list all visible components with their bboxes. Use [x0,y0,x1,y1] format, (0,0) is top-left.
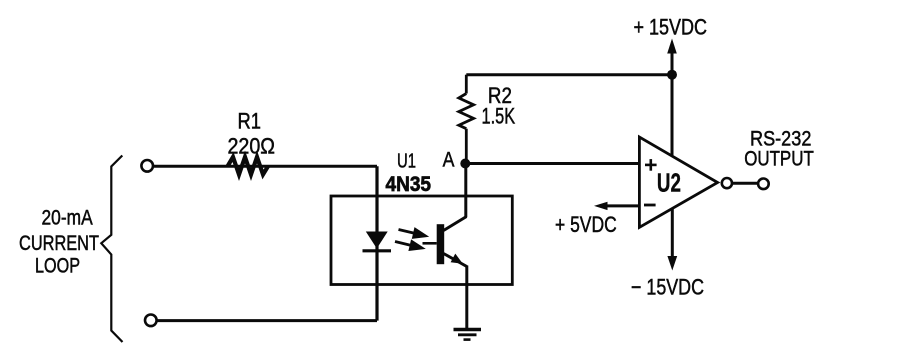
svg-text:LOOP: LOOP [35,255,80,278]
brace 20-mA current loop [101,156,122,343]
svg-text:1.5K: 1.5K [482,104,516,129]
+5VDC reference arrow [555,202,639,237]
+15VDC supply arrow [634,14,708,74]
ground [454,330,482,340]
-15VDC supply arrow [631,209,704,300]
resistor R1 [228,157,269,175]
label U1 4N35 [386,151,432,197]
optocoupler U1 box [331,196,512,285]
svg-text:+ 15VDC: + 15VDC [634,14,708,39]
LED diode [363,232,392,251]
wire output [733,182,758,185]
svg-text:R1: R1 [238,109,262,134]
svg-text:A: A [443,149,455,172]
wire emitter to ground [465,266,468,330]
svg-text:OUTPUT: OUTPUT [744,148,814,171]
label R1 220ohm [228,109,276,159]
wire bottom loop to LED cathode [158,319,378,322]
svg-text:220Ω: 220Ω [228,134,276,159]
svg-text:20-mA: 20-mA [42,207,93,230]
svg-text:4N35: 4N35 [386,173,432,196]
label RS-232 OUTPUT [744,128,814,171]
op-amp U2 [639,137,717,227]
terminal bottom-left [145,315,157,327]
resistor R2 [459,75,474,164]
terminal top-left [141,160,153,172]
wire +15V rail [466,73,672,76]
svg-text:U1: U1 [397,151,416,173]
label 20-mA CURRENT LOOP [19,207,99,278]
svg-text:U2: U2 [657,168,681,198]
node A [443,149,471,172]
wire collector to node A [464,163,467,217]
output terminal circle 2 [758,179,769,190]
svg-text:− 15VDC: − 15VDC [631,275,704,300]
light arrows [395,229,425,249]
wire LED vertical [375,166,378,320]
phototransistor Q of U1 [423,217,467,267]
junction dot [667,70,677,80]
wire top loop to LED [154,165,377,168]
label R2 1.5K [482,83,516,129]
output terminal circle 1 [722,178,732,188]
svg-text:+ 5VDC: + 5VDC [555,212,617,237]
wire node A to op-amp [465,162,639,165]
wire junction to op-amp top [671,75,674,157]
svg-text:CURRENT: CURRENT [19,232,99,255]
